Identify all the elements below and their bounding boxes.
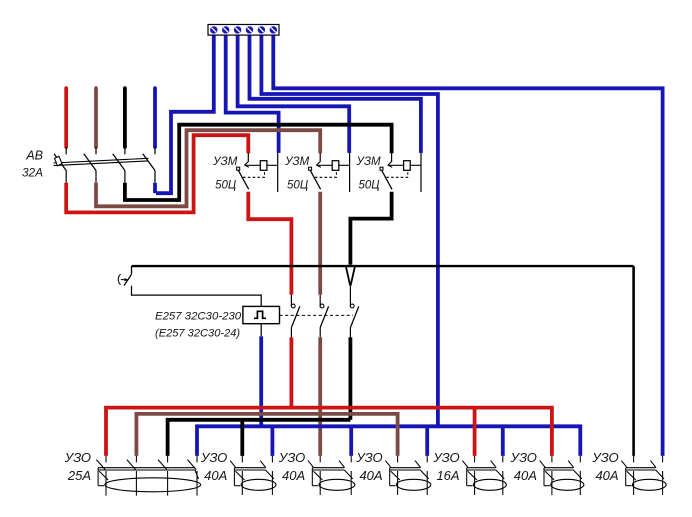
svg-text:40А: 40А — [514, 468, 537, 483]
svg-text:УЗМ: УЗМ — [212, 156, 238, 168]
svg-text:40А: 40А — [282, 468, 305, 483]
svg-text:25А: 25А — [67, 468, 91, 483]
svg-text:(Е257 32С30-24): (Е257 32С30-24) — [155, 328, 240, 340]
svg-text:УЗО: УЗО — [278, 450, 305, 465]
svg-text:АВ: АВ — [25, 149, 43, 163]
svg-text:УЗМ: УЗМ — [284, 156, 310, 168]
svg-text:40А: 40А — [359, 468, 382, 483]
svg-text:40А: 40А — [204, 468, 227, 483]
svg-text:16А: 16А — [436, 468, 459, 483]
svg-text:УЗО: УЗО — [355, 450, 382, 465]
svg-text:УЗО: УЗО — [200, 450, 227, 465]
svg-text:УЗО: УЗО — [64, 450, 91, 465]
svg-text:50Ц: 50Ц — [358, 180, 380, 192]
svg-text:Е257 32С30-230: Е257 32С30-230 — [155, 310, 242, 322]
svg-text:40А: 40А — [595, 468, 618, 483]
svg-text:50Ц: 50Ц — [215, 180, 237, 192]
svg-text:32А: 32А — [22, 166, 43, 180]
svg-text:УЗО: УЗО — [591, 450, 618, 465]
svg-text:УЗО: УЗО — [510, 450, 537, 465]
svg-text:50Ц: 50Ц — [287, 180, 309, 192]
svg-text:УЗО: УЗО — [432, 450, 459, 465]
svg-text:УЗМ: УЗМ — [355, 156, 381, 168]
